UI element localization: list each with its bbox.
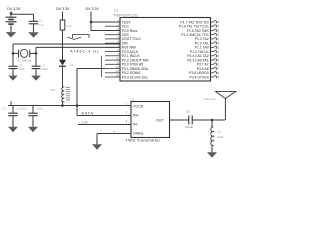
svg-text:12pF: 12pF — [19, 67, 26, 71]
svg-text:C1: C1 — [39, 19, 43, 23]
svg-text:D1: D1 — [70, 63, 74, 67]
svg-text:GNDa: GNDa — [133, 131, 144, 135]
svg-text:32.768kHz: 32.768kHz — [18, 59, 32, 63]
svg-text:100pF: 100pF — [185, 125, 193, 129]
svg-text:Antenna: Antenna — [204, 97, 216, 101]
svg-text:OUT: OUT — [156, 118, 165, 122]
svg-text:47k: 47k — [67, 24, 72, 28]
svg-text:P2.4 CA1 TA2: P2.4 CA1 TA2 — [187, 54, 208, 58]
svg-text:P2.0 ACLK: P2.0 ACLK — [122, 50, 139, 54]
svg-text:1uF: 1uF — [39, 23, 44, 27]
svg-text:P2.5 Rosc: P2.5 Rosc — [122, 29, 138, 33]
svg-text:VCCA: VCCA — [133, 104, 144, 108]
svg-text:P1.1 TA0: P1.1 TA0 — [195, 46, 209, 50]
svg-text:P1.5 TA0 TMS: P1.5 TA0 TMS — [187, 29, 210, 33]
svg-text:P3.0 STE0 A5: P3.0 STE0 A5 — [122, 63, 143, 67]
svg-text:P2.1 INCLK: P2.1 INCLK — [122, 54, 141, 58]
svg-text:XIN: XIN — [122, 42, 128, 46]
svg-text:C9: C9 — [186, 110, 190, 114]
svg-text:IN-: IN- — [133, 122, 139, 126]
svg-text:P3.1 SIMO0 SDA: P3.1 SIMO0 SDA — [122, 67, 149, 71]
svg-text:P3.4 UTXD0: P3.4 UTXD0 — [190, 75, 209, 79]
svg-text:P1.3 TA2: P1.3 TA2 — [195, 37, 209, 41]
svg-text:0.5V: 0.5V — [82, 120, 89, 124]
svg-text:ATA5C-4 HL: ATA5C-4 HL — [70, 49, 100, 53]
svg-text:TWS Transmitter: TWS Transmitter — [126, 138, 161, 143]
svg-text:1uH: 1uH — [218, 135, 223, 139]
svg-text:XOUT TCLK: XOUT TCLK — [122, 37, 142, 41]
svg-text:IN+: IN+ — [133, 113, 139, 117]
svg-text:P3.5 URXD0: P3.5 URXD0 — [189, 71, 209, 75]
svg-text:DATA: DATA — [82, 111, 94, 115]
svg-text:TEST: TEST — [122, 20, 131, 24]
svg-text:U1: U1 — [114, 9, 118, 13]
svg-text:P1.6 TA1 TDI TCLK: P1.6 TA1 TDI TCLK — [179, 25, 209, 29]
svg-text:P1.7 TA2 TDO TDI: P1.7 TA2 TDO TDI — [180, 20, 208, 24]
svg-text:P3.7 A7: P3.7 A7 — [197, 63, 209, 67]
svg-text:MSP430F1232: MSP430F1232 — [114, 13, 139, 17]
svg-text:P2.3 CA0 TA1: P2.3 CA0 TA1 — [187, 58, 208, 62]
svg-text:10uF: 10uF — [37, 107, 44, 111]
svg-text:DV 3.3V: DV 3.3V — [56, 7, 70, 11]
svg-text:FB1: FB1 — [51, 88, 57, 92]
svg-text:DV 3.3V: DV 3.3V — [86, 7, 100, 11]
svg-text:VCC: VCC — [122, 25, 130, 29]
svg-text:P3.6 A6: P3.6 A6 — [197, 67, 209, 71]
svg-text:12pF: 12pF — [42, 67, 49, 71]
svg-text:VSS: VSS — [122, 33, 130, 37]
svg-text:DV 3.3V: DV 3.3V — [7, 7, 21, 11]
svg-text:P1.0 TACLK: P1.0 TACLK — [190, 50, 209, 54]
svg-text:U2: U2 — [131, 98, 135, 102]
svg-text:0.1uF: 0.1uF — [17, 107, 24, 111]
svg-text:P2.2 CAOUT TA0: P2.2 CAOUT TA0 — [122, 58, 149, 62]
svg-text:C3: C3 — [42, 64, 46, 68]
svg-text:L1: L1 — [218, 130, 222, 134]
svg-text:P1.2 TA1: P1.2 TA1 — [195, 42, 209, 46]
svg-text:RST NMI: RST NMI — [122, 46, 136, 50]
svg-text:P1.4 SMCLK TCK: P1.4 SMCLK TCK — [181, 33, 209, 37]
svg-text:P3.2 SOMI0: P3.2 SOMI0 — [122, 71, 141, 75]
svg-text:C2: C2 — [19, 64, 23, 68]
svg-text:P3.3 UCLK0 SCL: P3.3 UCLK0 SCL — [122, 75, 148, 79]
